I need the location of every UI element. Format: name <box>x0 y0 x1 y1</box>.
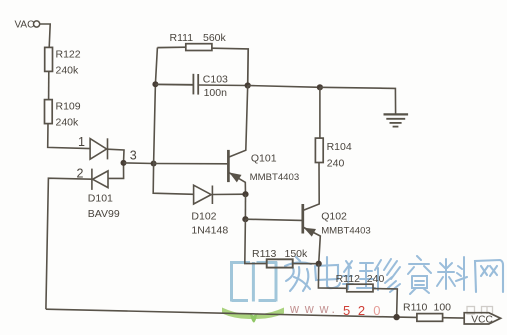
watermark book icon <box>230 262 277 302</box>
capacitor C103 <box>155 74 247 95</box>
svg-text:1: 1 <box>78 135 85 149</box>
watermark green ribbon <box>222 308 284 323</box>
watermark blue char 电 <box>315 257 340 288</box>
watermark blue char 维 <box>343 261 375 289</box>
watermark blue char 料 <box>437 257 467 290</box>
svg-text:D102: D102 <box>191 211 216 223</box>
svg-text:R104: R104 <box>327 141 352 153</box>
diode D101 upper <box>90 138 107 159</box>
resistor R110 <box>417 314 443 322</box>
wire R112 to bottom rail <box>373 289 397 318</box>
diode D102 <box>194 185 246 204</box>
svg-text:100n: 100n <box>204 87 228 99</box>
svg-text:560k: 560k <box>203 32 227 44</box>
svg-text:240: 240 <box>367 273 385 285</box>
svg-text:R113: R113 <box>252 248 276 260</box>
diode D101 lower <box>92 169 108 190</box>
wire R104 top <box>319 87 321 138</box>
junction node B <box>151 161 157 167</box>
wire node3 to node B <box>124 162 154 165</box>
svg-text:R122: R122 <box>56 48 81 60</box>
junction Q102 base node <box>242 216 248 222</box>
watermark faint com <box>467 307 493 315</box>
svg-text:D101: D101 <box>88 193 113 205</box>
wire D101 pin2 to bottom rail <box>46 178 92 309</box>
wire VAC to R122 <box>40 24 51 47</box>
watermark red url www.520 <box>289 302 381 318</box>
watermark blue char 网 <box>475 260 503 292</box>
wire Q101 base <box>154 163 228 165</box>
wire Q102 base <box>245 219 301 220</box>
svg-text:100: 100 <box>434 301 452 313</box>
watermark blue char 家 <box>285 257 311 291</box>
transistor Q102 <box>303 163 321 264</box>
svg-text:2: 2 <box>77 166 84 180</box>
svg-text:3: 3 <box>130 148 137 162</box>
transistor Q101 <box>228 86 247 195</box>
svg-text:Q102: Q102 <box>321 211 347 223</box>
wire down to R113 <box>245 219 267 263</box>
wire R113 to emitter node <box>293 263 319 265</box>
resistor R122 <box>45 47 53 71</box>
wire D101 lower anode to node 3 <box>108 163 124 179</box>
svg-text:MMBT4403: MMBT4403 <box>321 226 371 237</box>
junction C103 left <box>152 81 158 87</box>
svg-text:R109: R109 <box>56 100 81 112</box>
resistor R112 <box>347 284 373 292</box>
svg-text:0: 0 <box>373 303 380 318</box>
node VAC terminal <box>34 21 40 27</box>
svg-text:1N4148: 1N4148 <box>191 225 228 237</box>
junction node 3 <box>121 160 127 166</box>
resistor R113 <box>267 259 293 267</box>
svg-text:R111: R111 <box>170 32 194 44</box>
resistor R111 <box>157 44 248 86</box>
svg-text:C103: C103 <box>203 73 228 85</box>
wire node to Q102 base node <box>244 194 246 219</box>
svg-text:Q101: Q101 <box>251 153 277 165</box>
wire R110 to VCC <box>443 317 465 319</box>
watermark blue char 修 <box>375 259 400 292</box>
svg-text:BAV99: BAV99 <box>88 208 120 220</box>
resistor R109 <box>45 100 53 124</box>
svg-text:240k: 240k <box>56 64 80 76</box>
wire C103 right to R104 top <box>248 86 320 88</box>
VCC flag <box>464 313 500 324</box>
svg-text:.: . <box>332 302 335 316</box>
wire emitter node to R112 <box>318 264 346 289</box>
svg-text:240k: 240k <box>56 116 80 128</box>
resistor R104 <box>315 138 323 162</box>
wire R122 to R109 <box>48 71 50 99</box>
wire R104 node to ground <box>320 87 396 114</box>
junction C103 right <box>245 82 251 88</box>
svg-text:R112: R112 <box>336 273 360 285</box>
wire R109 to D101 pin1 <box>48 124 90 149</box>
watermark blue char 资 <box>408 256 431 294</box>
wire D101 upper cathode to node 3 <box>108 149 125 163</box>
svg-text:150k: 150k <box>285 248 309 260</box>
junction Q102 emitter node <box>316 261 322 267</box>
svg-text:R110: R110 <box>403 301 427 313</box>
svg-text:VAC: VAC <box>15 19 35 30</box>
junction R104 top <box>317 84 323 90</box>
svg-text:VCC: VCC <box>471 314 493 325</box>
ground <box>384 114 409 126</box>
junction bottom rail <box>393 314 399 320</box>
junction D102 cathode node <box>242 191 248 197</box>
wire left vertical R111/C103 branch <box>153 48 193 195</box>
svg-text:MMBT4403: MMBT4403 <box>250 172 300 183</box>
svg-text:240: 240 <box>327 158 345 170</box>
bottom rail <box>46 309 417 317</box>
